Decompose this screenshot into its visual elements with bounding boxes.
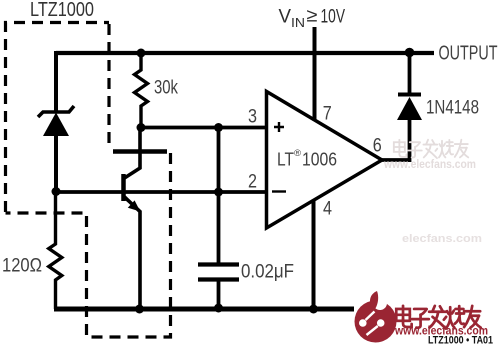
svg-text:6: 6	[373, 135, 382, 156]
svg-text:4: 4	[323, 199, 332, 220]
svg-text:IN: IN	[291, 15, 305, 30]
wire pin3	[141, 126, 266, 130]
capacitor C1 top plate	[198, 262, 239, 266]
diode 1N4148 body	[397, 97, 422, 120]
wire top rail	[56, 51, 434, 55]
LTZ1000 dashed outline right edge upper	[107, 24, 110, 150]
wire diode branch lower	[408, 120, 412, 162]
svg-text:2: 2	[248, 172, 257, 193]
wire pin 4 to rail	[312, 200, 316, 310]
svg-text:120Ω: 120Ω	[2, 256, 42, 277]
node output	[405, 48, 415, 58]
svg-text:www.elecfans.com: www.elecfans.com	[383, 159, 476, 171]
LTZ1000 outline long horizontal dash	[113, 149, 167, 153]
watermark logo circle	[355, 291, 397, 343]
svg-text:OUTPUT: OUTPUT	[439, 43, 498, 65]
node pin4/rail	[309, 305, 318, 314]
transistor Q1 base bar	[121, 174, 126, 201]
op-amp minus sign	[272, 190, 286, 192]
resistor 30k	[135, 53, 148, 127]
LTZ1000 dashed outline lower-left edge	[6, 213, 87, 335]
zener diode cathode bar	[38, 106, 74, 117]
svg-text:®: ®	[294, 148, 301, 159]
svg-text:elecfans.com: elecfans.com	[402, 233, 482, 245]
wire left vertical to zener	[54, 51, 58, 111]
wire bottom rail	[54, 307, 354, 312]
wire pin2	[56, 190, 266, 194]
node cap/rail	[214, 304, 223, 313]
node at 30k bottom / collector	[137, 123, 146, 132]
svg-text:30k: 30k	[154, 78, 178, 99]
node at 30k top	[137, 49, 146, 58]
svg-text:LT: LT	[277, 149, 294, 170]
op-amp plus sign	[274, 122, 284, 132]
node emitter/rail	[135, 305, 144, 314]
LTZ1000 dashed outline left/top edge	[6, 23, 110, 213]
watermark faint mid copy	[394, 140, 468, 158]
resistor 120ohm	[49, 194, 62, 309]
LTZ1000 dashed outline right edge lower	[86, 153, 171, 337]
node cap branch top	[214, 123, 223, 132]
zener diode body	[43, 113, 69, 137]
svg-text:10V: 10V	[321, 7, 346, 28]
svg-text:≥: ≥	[307, 6, 318, 27]
capacitor C1 upper stem	[217, 128, 221, 263]
svg-text:V: V	[279, 7, 292, 28]
transistor Q1 emitter arrow	[128, 200, 140, 211]
svg-text:LTZ1000: LTZ1000	[30, 0, 94, 21]
svg-text:7: 7	[323, 104, 332, 125]
svg-text:3: 3	[248, 107, 257, 128]
capacitor C1 bottom plate	[198, 277, 239, 281]
node zener/120 ohm	[52, 187, 61, 196]
wire zener anode down to node	[54, 134, 58, 192]
wire pin 6 output	[381, 158, 410, 162]
svg-text:1N4148: 1N4148	[426, 98, 479, 119]
wire VIN / pin 7	[313, 27, 317, 121]
transistor Q1 emitter	[125, 197, 141, 309]
watermark CJK text	[396, 306, 480, 329]
diode 1N4148 cathode bar	[398, 93, 421, 97]
wire diode to rail	[408, 53, 412, 93]
svg-text:1006: 1006	[302, 149, 337, 170]
op-amp U1 triangle	[267, 92, 383, 229]
svg-text:0.02μF: 0.02μF	[241, 262, 294, 283]
node cap branch middle	[214, 188, 223, 197]
svg-text:LTZ1000 • TA01: LTZ1000 • TA01	[428, 335, 493, 347]
capacitor C1 lower stem	[217, 282, 221, 310]
transistor Q1 collector	[125, 126, 141, 178]
